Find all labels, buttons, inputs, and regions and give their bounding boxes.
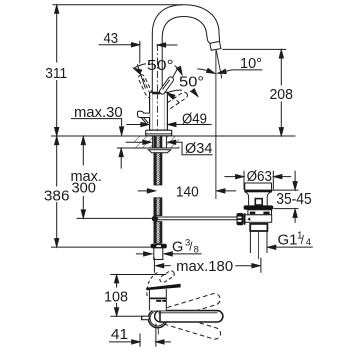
deck top surface line — [51, 135, 296, 137]
10 degree arc with arrow — [197, 69, 214, 74]
threaded shank segment 3 — [154, 222, 162, 244]
35-45 arrows — [294, 171, 296, 189]
dimension 108 — [116, 276, 118, 288]
svg-text:G1: G1 — [278, 232, 298, 249]
inner ring — [150, 311, 165, 326]
dimension 35-45 upper line — [272, 189, 299, 191]
dimension 140 — [138, 190, 155, 192]
body escutcheon outer circle — [148, 309, 167, 328]
drain tailpipe — [249, 231, 251, 253]
deck hatch right — [167, 137, 179, 148]
deck hole edges — [152, 136, 154, 148]
dashed raised handle — [147, 270, 176, 296]
dimension 41 — [139, 334, 141, 347]
deck bottom line — [117, 147, 180, 149]
dashed swung spout upper — [160, 292, 222, 321]
dia63 extension ticks — [243, 171, 245, 190]
dashed swung spout lower — [160, 312, 222, 341]
faucet centerline — [156, 44, 158, 136]
dia63 dimension — [224, 176, 243, 178]
dimension 386 vertical line — [56, 137, 58, 187]
pop-up rod pivot dot — [152, 216, 158, 222]
drain coupling nut — [250, 224, 267, 231]
G3/8 dimension arrows — [136, 253, 151, 255]
lower supply nut — [151, 244, 166, 248]
deck hatch left — [134, 137, 152, 148]
dimension 208 extension line at outlet — [222, 48, 286, 50]
side view body — [149, 289, 167, 311]
solid lever handle — [158, 76, 174, 95]
10 degree leader — [218, 70, 262, 73]
threaded shank inside deck hole — [154, 136, 162, 148]
dimension max.300 vertical line — [82, 137, 84, 165]
svg-text:G: G — [172, 239, 183, 255]
aerator nub — [142, 316, 149, 320]
43 extension line — [139, 41, 141, 64]
top reference line (spout apex level) — [52, 4, 182, 6]
base flange — [146, 130, 172, 136]
svg-text:Ø49: Ø49 — [182, 110, 207, 127]
drain flange (black) — [244, 205, 274, 209]
dimension max.180 — [153, 258, 155, 273]
svg-text:Ø34: Ø34 — [185, 140, 212, 157]
50 deg #1 arc — [134, 64, 146, 69]
dimension 43 — [99, 44, 140, 46]
svg-text:386: 386 — [44, 187, 70, 204]
ball joint knob — [237, 213, 244, 225]
vertical centerline below circle — [157, 328, 159, 335]
108 top extension line — [110, 274, 166, 276]
dimension 208 vertical line — [280, 51, 282, 86]
50 deg #2 arc — [167, 90, 182, 93]
dimension 35-45 lower line — [274, 208, 299, 210]
right dashed handle position — [165, 91, 189, 110]
threaded shank segment 1 — [154, 153, 162, 185]
pop-up horizontal rod — [157, 216, 237, 218]
spout arm inner line — [159, 312, 218, 314]
solid spout arm — [160, 311, 223, 322]
svg-text:4: 4 — [306, 237, 311, 248]
svg-text:/: / — [301, 235, 305, 247]
label G3/8 — [172, 237, 199, 255]
spout outer curve — [152, 5, 219, 93]
dimension diameter 49 — [126, 124, 148, 126]
left dashed handle position — [137, 74, 153, 99]
arm inner cap arc — [155, 311, 161, 322]
pull-rod end reference line — [77, 217, 152, 219]
50 deg #1 boundary line (left handle axis) — [137, 64, 145, 88]
svg-text:208: 208 — [269, 86, 293, 103]
side lever spout-side small handle — [137, 111, 149, 124]
G1 1/4 label and leader — [268, 246, 313, 248]
drain upper cylinder — [245, 183, 272, 192]
svg-text:max.180: max.180 — [176, 258, 233, 275]
svg-text:140: 140 — [176, 183, 199, 200]
svg-text:/: / — [189, 242, 193, 254]
mounting washer and nut below deck — [148, 150, 171, 153]
handle blade (black) — [146, 284, 180, 291]
svg-text:Ø63: Ø63 — [247, 168, 272, 185]
drain middle band — [244, 215, 272, 223]
svg-text:35-45: 35-45 — [276, 191, 312, 208]
faucet body — [150, 92, 168, 130]
dimension 311 vertical line — [56, 5, 58, 62]
drain neck — [245, 192, 272, 206]
max.30 lower arrow below deck — [120, 149, 122, 169]
svg-text:10°: 10° — [240, 55, 262, 72]
svg-text:300: 300 — [71, 180, 96, 197]
svg-text:50°: 50° — [147, 57, 174, 74]
water stream vertical reference line — [215, 50, 217, 199]
drain centerline — [258, 232, 260, 260]
solid handle axis leader — [163, 68, 178, 96]
svg-text:108: 108 — [104, 288, 128, 305]
dimension diameter 34 — [126, 141, 151, 143]
386 bottom reference line — [51, 246, 151, 248]
aerator tip — [208, 41, 210, 44]
threaded shank segment 2 — [154, 198, 162, 216]
drain band with slots — [248, 210, 272, 215]
spout inner curve — [162, 17, 207, 93]
body centerline — [156, 92, 158, 135]
10 degree tilted stream line — [216, 50, 222, 78]
108 bottom extension line — [110, 315, 146, 317]
svg-text:311: 311 — [45, 65, 67, 82]
drain lift-rod notch — [255, 199, 262, 205]
svg-text:8: 8 — [194, 244, 199, 255]
G3/8 connection tube — [154, 248, 163, 260]
svg-text:50°: 50° — [179, 74, 204, 91]
svg-text:41: 41 — [111, 326, 128, 343]
svg-text:43: 43 — [104, 30, 119, 47]
